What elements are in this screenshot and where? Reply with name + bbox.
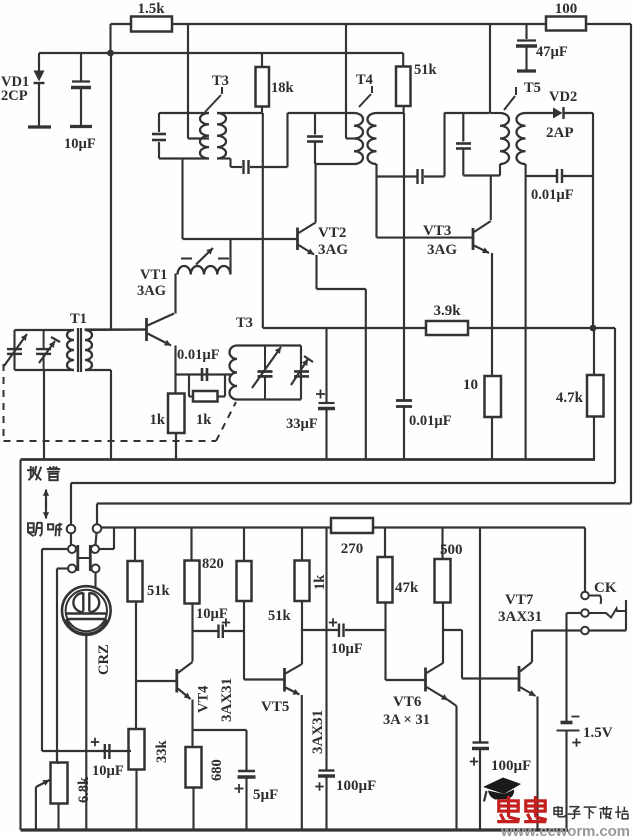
svg-text:T1: T1 xyxy=(70,311,87,327)
svg-text:51k: 51k xyxy=(414,62,438,78)
svg-text:33k: 33k xyxy=(154,740,170,764)
svg-text:3.9k: 3.9k xyxy=(433,303,461,319)
svg-text:500: 500 xyxy=(440,542,463,558)
svg-text:10µF: 10µF xyxy=(64,136,96,152)
svg-text:1.5V: 1.5V xyxy=(583,725,613,741)
svg-text:VD2: VD2 xyxy=(549,89,577,105)
svg-text:47k: 47k xyxy=(395,580,419,596)
svg-text:6.8k: 6.8k xyxy=(76,776,92,803)
svg-text:0.01µF: 0.01µF xyxy=(177,347,220,363)
svg-text:10µF: 10µF xyxy=(331,641,363,657)
svg-text:1.5k: 1.5k xyxy=(137,1,165,17)
svg-text:CK: CK xyxy=(594,580,617,596)
svg-text:T5: T5 xyxy=(524,80,541,96)
svg-text:10µF: 10µF xyxy=(196,606,228,622)
svg-text:2AP: 2AP xyxy=(546,125,574,141)
svg-text:VT7: VT7 xyxy=(505,592,534,608)
svg-text:VT3: VT3 xyxy=(423,223,451,239)
svg-text:VT5: VT5 xyxy=(261,699,289,715)
svg-text:680: 680 xyxy=(209,759,225,781)
svg-text:T4: T4 xyxy=(356,72,373,88)
svg-text:100: 100 xyxy=(555,1,578,17)
svg-text:3A × 31: 3A × 31 xyxy=(383,712,430,728)
svg-text:3AX31: 3AX31 xyxy=(219,678,235,722)
svg-text:VT4: VT4 xyxy=(196,686,212,713)
svg-text:100µF: 100µF xyxy=(336,778,376,794)
svg-text:3AX31: 3AX31 xyxy=(310,710,326,754)
svg-text:VT1: VT1 xyxy=(140,267,167,283)
svg-text:T3: T3 xyxy=(236,315,253,331)
svg-text:4.7k: 4.7k xyxy=(556,390,584,406)
svg-text:2CP: 2CP xyxy=(1,88,28,104)
svg-text:3AX31: 3AX31 xyxy=(498,609,542,625)
svg-text:3AG: 3AG xyxy=(318,242,348,258)
svg-text:820: 820 xyxy=(202,556,224,572)
svg-text:5µF: 5µF xyxy=(253,787,278,803)
svg-text:100µF: 100µF xyxy=(491,758,531,774)
svg-text:VT6: VT6 xyxy=(393,694,422,710)
svg-text:270: 270 xyxy=(341,541,364,557)
svg-text:1k: 1k xyxy=(196,412,212,428)
svg-text:10µF: 10µF xyxy=(92,763,124,779)
svg-text:47µF: 47µF xyxy=(536,44,568,60)
svg-text:T3: T3 xyxy=(212,73,229,89)
svg-text:33µF: 33µF xyxy=(286,416,318,432)
svg-text:0.01µF: 0.01µF xyxy=(409,413,452,429)
svg-text:3AG: 3AG xyxy=(137,283,166,299)
svg-text:1k: 1k xyxy=(150,412,166,428)
svg-text:51k: 51k xyxy=(268,608,292,624)
svg-text:0.01µF: 0.01µF xyxy=(531,187,574,203)
svg-text:18k: 18k xyxy=(271,80,295,96)
svg-text:51k: 51k xyxy=(147,583,171,599)
svg-text:3AG: 3AG xyxy=(427,242,457,258)
svg-text:VT2: VT2 xyxy=(318,225,346,241)
svg-text:10: 10 xyxy=(463,377,478,393)
svg-text:CRZ: CRZ xyxy=(96,644,112,675)
svg-text:www.eeworm.com: www.eeworm.com xyxy=(500,823,630,836)
